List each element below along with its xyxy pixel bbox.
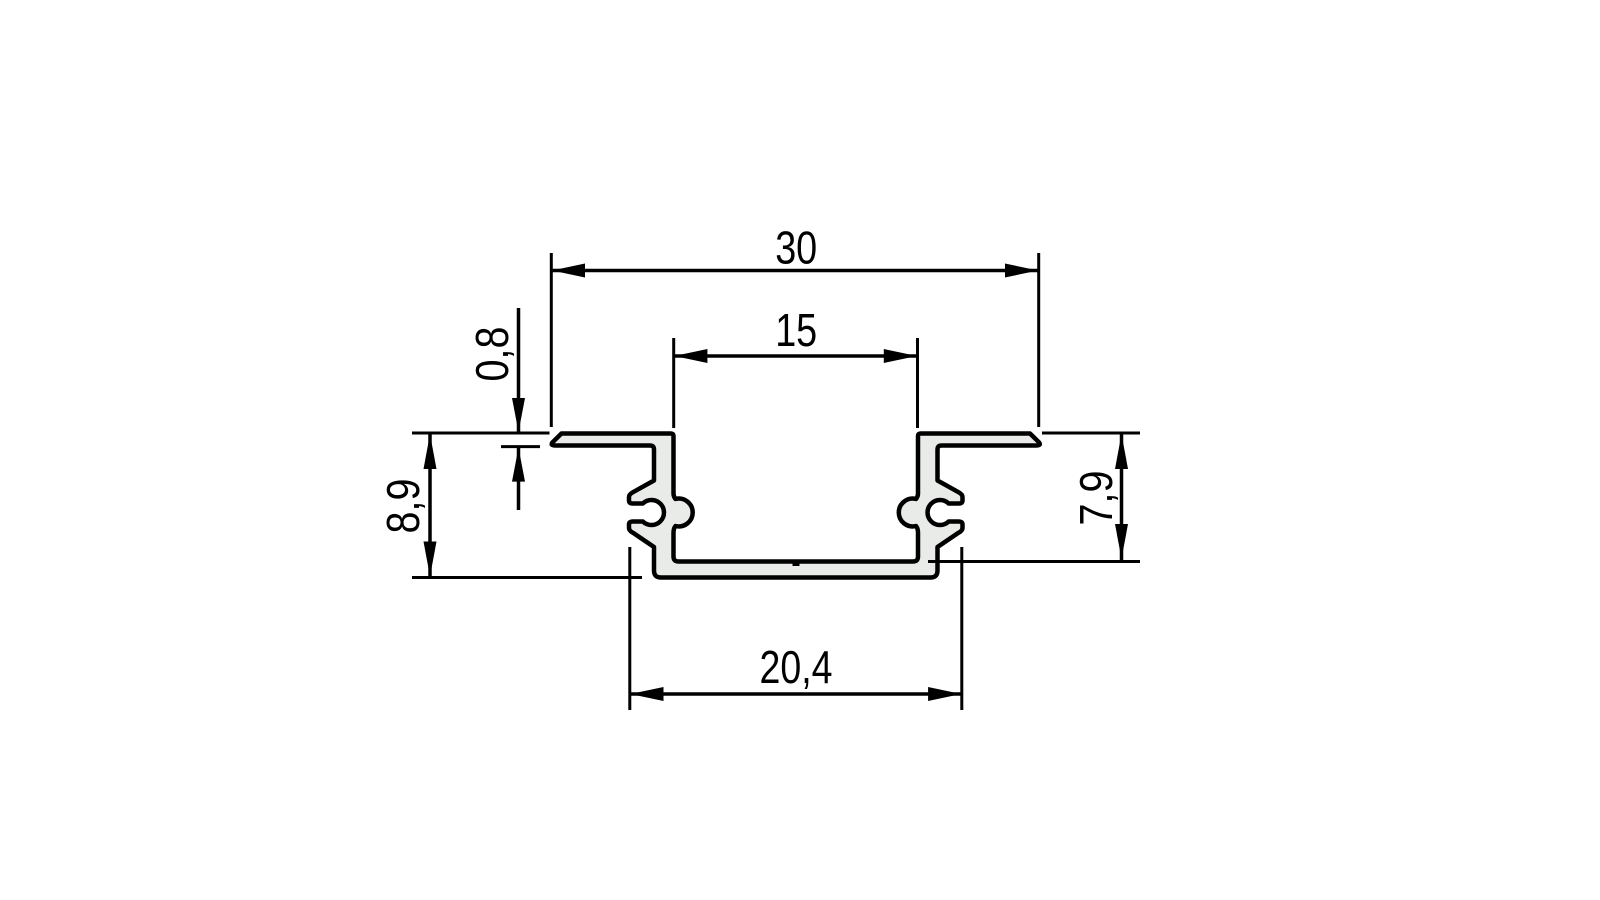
arrowhead 20,4 left (631, 687, 664, 701)
dimension line 15 (674, 354, 918, 358)
arrowhead 0,8 up (512, 448, 525, 482)
dimension line 7,9 (1120, 433, 1124, 560)
extension line 20,4 right (960, 547, 963, 710)
extension line 15 left (672, 338, 675, 428)
dimension line 8,9 (428, 433, 432, 578)
arrowhead 15 right (884, 349, 917, 363)
svg-text:7,9: 7,9 (1070, 471, 1122, 526)
svg-text:15: 15 (775, 304, 817, 356)
arrowhead 20,4 right (928, 687, 961, 701)
extension line 20,4 left (628, 547, 631, 710)
svg-text:20,4: 20,4 (760, 641, 833, 693)
extension line 30 left (550, 253, 553, 427)
arrowhead 8,9 down (424, 542, 437, 577)
arrowhead 7,9 up (1115, 434, 1128, 469)
extension line 7,9 top (1042, 432, 1140, 435)
svg-text:30: 30 (775, 222, 817, 274)
dimension line 30 (551, 269, 1038, 273)
extension line 7,9 bottom (928, 560, 1140, 563)
extension line 15 right (916, 338, 919, 428)
center mark on channel floor (793, 561, 800, 566)
extension line 30 right (1037, 253, 1040, 427)
aluminium profile cross-section body (552, 434, 1040, 578)
dimension line 0,8 lower segment (517, 447, 521, 510)
arrowhead 30 left (552, 264, 585, 278)
extension line 8,9 bottom (412, 576, 642, 579)
svg-text:0,8: 0,8 (466, 327, 518, 382)
arrowhead 30 right (1005, 264, 1038, 278)
svg-text:8,9: 8,9 (377, 479, 429, 534)
extension tick 0,8 (501, 445, 540, 448)
arrowhead 8,9 up (424, 434, 437, 469)
arrowhead 15 left (674, 349, 707, 363)
dimension line 0,8 upper segment (517, 308, 521, 433)
extension line 8,9 top (412, 432, 550, 435)
arrowhead 7,9 down (1115, 524, 1128, 559)
arrowhead 0,8 down (512, 398, 525, 432)
dimension line 20,4 (630, 692, 962, 696)
